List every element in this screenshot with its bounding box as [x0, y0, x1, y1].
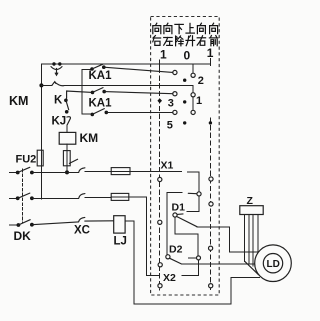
dots row D [183, 121, 186, 124]
svg-text:KJ: KJ [52, 116, 67, 128]
wire row A [104, 67, 173, 72]
svg-text:1: 1 [160, 48, 167, 62]
position tick right [209, 58, 211, 65]
wire row A feed [82, 69, 92, 71]
wire row B [64, 86, 193, 93]
svg-text:KM: KM [9, 94, 28, 108]
wire X2 [146, 260, 198, 276]
contact row A circles [173, 70, 177, 74]
knife switch DK pole 3 [10, 224, 19, 226]
controller direction legend row 2: 后 左 降 升 右 前 [153, 36, 161, 46]
contact row D circles [173, 110, 177, 114]
dot row A [183, 79, 186, 82]
svg-text:FU2: FU2 [16, 154, 37, 166]
top rail wire [41, 63, 210, 65]
diamond marker row C [157, 98, 162, 103]
bus wire down to D2 [166, 193, 168, 255]
svg-text:X2: X2 [163, 272, 176, 284]
position line circles right [209, 177, 213, 181]
brake wedge [245, 261, 259, 274]
wire rail 2 [32, 197, 79, 199]
connector XC pole 1 [79, 168, 85, 173]
controller direction legend row 1: 向 向 下 上 向 向 [153, 23, 161, 33]
connector XC pole 2 [79, 194, 85, 199]
node on rail 1 [65, 170, 69, 174]
knife switch DK pole 2 [10, 197, 18, 199]
relay LJ [114, 216, 125, 233]
position tick left [159, 60, 161, 68]
svg-text:0: 0 [184, 49, 191, 63]
wire row D feed [82, 113, 93, 115]
svg-text:DK: DK [14, 229, 32, 243]
wire row D [106, 111, 173, 113]
position line left dashed [159, 69, 161, 291]
wire from K to row C [67, 91, 93, 98]
tick mark [69, 159, 77, 163]
node KM branch [39, 83, 43, 87]
svg-text:X1: X1 [161, 160, 174, 172]
fuse on rail 2 [111, 196, 129, 198]
dot row C [183, 100, 186, 103]
motor LD [255, 245, 292, 282]
linkage DK dashed [21, 169, 23, 222]
svg-text:XC: XC [74, 225, 90, 237]
fuse on rail 1 [111, 170, 130, 172]
relay contact KA1 bottom [91, 113, 95, 117]
wire D1 fixed terminal [187, 196, 199, 212]
wire D1 pivot to D2 fixed [175, 217, 198, 256]
relay contact KA1 top [90, 67, 94, 71]
contactor coil KM [59, 132, 76, 144]
svg-text:1: 1 [196, 95, 202, 107]
svg-text:3: 3 [168, 98, 174, 110]
fuse below coil [66, 144, 68, 172]
position line circles left [158, 177, 162, 181]
svg-text:K: K [54, 95, 63, 107]
svg-text:D1: D1 [172, 202, 186, 214]
position line right dashed [210, 118, 212, 290]
wire to bus [167, 192, 182, 194]
contact KM auxiliary [41, 84, 52, 86]
connector XC pole 3 [79, 217, 85, 222]
svg-text:D2: D2 [169, 244, 183, 256]
svg-text:KM: KM [80, 131, 99, 145]
link wire between right circles [192, 97, 194, 110]
wire row C [104, 92, 173, 94]
left supply vertical wire [40, 64, 42, 199]
wire X1 segment [187, 172, 199, 192]
relay contact KA1 middle [91, 91, 95, 95]
fuse FU2 [37, 150, 43, 166]
contact row C circles [173, 92, 177, 96]
svg-text:KA1: KA1 [89, 70, 113, 82]
brake rods [245, 215, 258, 267]
wire rail 3 [32, 222, 78, 225]
knife switch DK pole 1 [10, 172, 18, 174]
controller enclosure dashed box [151, 17, 220, 296]
current collector [52, 62, 55, 65]
junction circle [197, 192, 201, 196]
svg-text:LD: LD [267, 259, 280, 270]
svg-text:LJ: LJ [114, 236, 127, 248]
drop wire from rail to row A contact [192, 64, 194, 73]
wire bracket KA1 [81, 70, 83, 114]
svg-text:KA1: KA1 [89, 98, 113, 110]
svg-text:5: 5 [167, 120, 173, 132]
wire from LJ to bottom [125, 221, 259, 304]
wire rail 1 [32, 172, 79, 174]
svg-text:2: 2 [198, 75, 204, 87]
wire rail 2 drop [145, 197, 147, 276]
